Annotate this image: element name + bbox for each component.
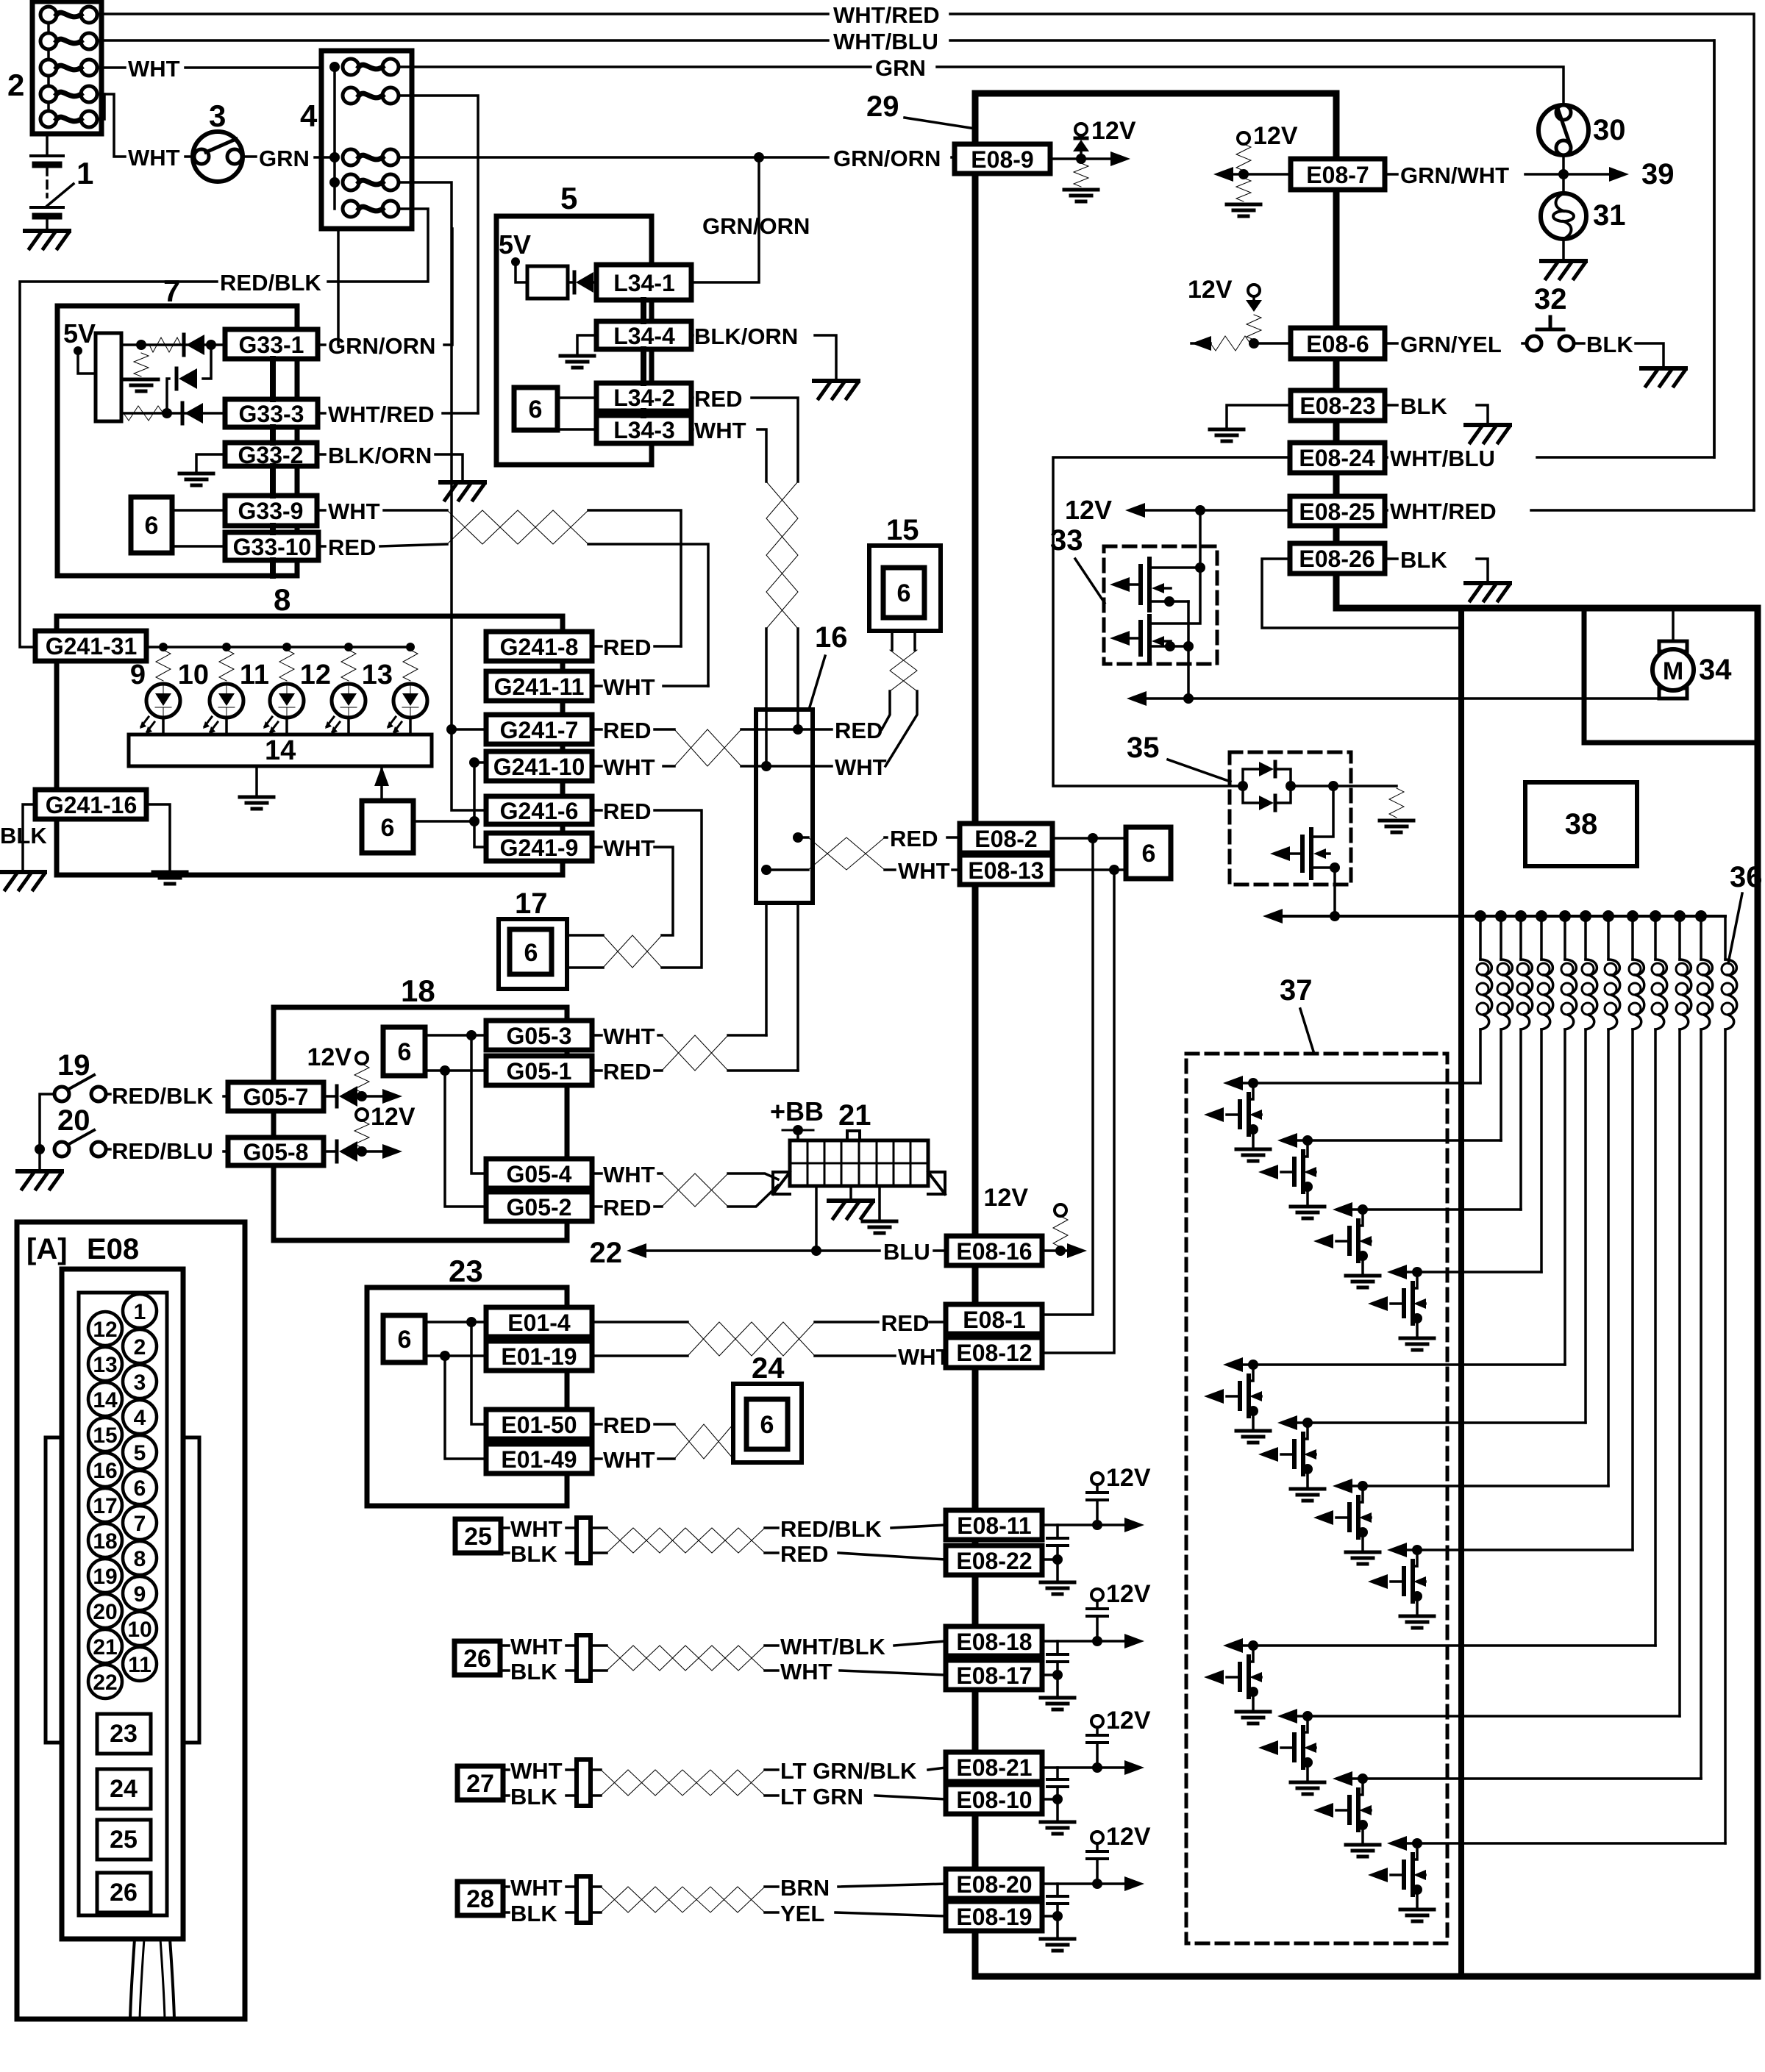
pin 20 (88, 1594, 122, 1628)
wire LED9 to bar (162, 718, 165, 735)
svg-text:WHT: WHT (510, 1758, 563, 1784)
svg-text:WHT: WHT (780, 1659, 832, 1685)
zener to 12V (1075, 137, 1087, 140)
wire RED to 15 (798, 691, 890, 729)
svg-text:M: M (1663, 657, 1683, 685)
resistor block (527, 266, 568, 299)
pin G05-7 (228, 1082, 324, 1111)
svg-text:BLK: BLK (0, 823, 47, 849)
svg-text:WHT: WHT (603, 1447, 655, 1473)
ECU 29 outline (972, 93, 979, 1976)
wire coil 8 to driver (1631, 1029, 1634, 1550)
wire GRN/ORN G33-1 up to relay4 (318, 229, 452, 345)
svg-text:WHT: WHT (510, 1516, 563, 1542)
svg-text:16: 16 (815, 621, 848, 654)
connector body (62, 1269, 183, 1939)
wire to G241-8 RED (588, 510, 681, 646)
pin 10 (123, 1612, 157, 1646)
diode 12V (1246, 300, 1262, 312)
pin G241-11 (486, 671, 592, 701)
svg-text:11: 11 (128, 1653, 151, 1677)
wire coil 10 gate line (1297, 1715, 1680, 1718)
motor M 34 (1659, 641, 1687, 651)
svg-text:19: 19 (57, 1049, 90, 1082)
svg-text:BLK: BLK (510, 1901, 557, 1926)
svg-text:12V: 12V (1065, 495, 1112, 525)
wire bar to ground (255, 766, 258, 794)
pin 3 (123, 1365, 157, 1398)
resistor up (1236, 144, 1251, 171)
transistor Q3 (37) (1313, 1202, 1380, 1287)
ground (E08-22) (1041, 1582, 1074, 1594)
svg-text:21: 21 (838, 1099, 871, 1132)
resistor (E08-9) (1074, 163, 1088, 187)
wire RED G05-2 (592, 1205, 662, 1208)
diode D (row2) (181, 403, 185, 424)
ground (E08-26) (1466, 581, 1510, 585)
pin G241-16 (35, 790, 146, 819)
svg-text:12: 12 (93, 1318, 117, 1342)
LED 11 (270, 684, 304, 718)
pin G33-10 (225, 532, 318, 560)
svg-text:1: 1 (134, 1300, 146, 1324)
pin E08-10 (946, 1785, 1042, 1814)
svg-text:G05-8: G05-8 (243, 1139, 309, 1165)
svg-text:G05-1: G05-1 (507, 1058, 572, 1085)
wire pair into 16 (766, 629, 798, 766)
svg-text:E08-21: E08-21 (956, 1754, 1032, 1781)
svg-text:GRN/WHT: GRN/WHT (1400, 162, 1509, 188)
svg-text:6: 6 (398, 1038, 412, 1066)
pin 2 (123, 1329, 157, 1363)
pin L34-4 (596, 321, 691, 349)
wire GRN/WHT (1385, 173, 1609, 176)
svg-text:8: 8 (134, 1547, 146, 1571)
svg-text:WHT/BLU: WHT/BLU (1390, 446, 1495, 471)
svg-text:38: 38 (1565, 808, 1598, 840)
wire pin column (270, 359, 276, 576)
svg-text:RED: RED (780, 1541, 828, 1567)
pin 22 (88, 1665, 122, 1698)
wire WHT/BLK (765, 1641, 946, 1646)
wire G241-16 right ground (146, 804, 170, 869)
svg-text:E08-25: E08-25 (1299, 499, 1374, 525)
svg-text:6: 6 (760, 1411, 774, 1439)
svg-text:E08-13: E08-13 (968, 857, 1044, 884)
ground (L34-4 left) (560, 356, 594, 368)
LED 10 (210, 684, 243, 718)
svg-text:5: 5 (134, 1441, 146, 1465)
wire coil 6 to driver (1584, 1029, 1587, 1423)
pin E08-17 (946, 1660, 1042, 1690)
svg-text:WHT: WHT (603, 754, 655, 780)
wire E08-18 pullup (1042, 1640, 1125, 1643)
LED bar 14 (129, 735, 432, 766)
svg-text:GRN/YEL: GRN/YEL (1400, 332, 1502, 357)
transistor Q (35) (1313, 786, 1333, 837)
svg-text:5: 5 (560, 181, 577, 215)
svg-text:G33-1: G33-1 (239, 332, 304, 358)
svg-text:WHT: WHT (898, 1344, 950, 1370)
node bus tap 2 (1495, 910, 1507, 922)
pin 14 (88, 1382, 122, 1416)
wire LED supply bus (146, 646, 410, 649)
wire RED G241-8 (592, 645, 681, 648)
svg-text:6: 6 (524, 939, 538, 967)
coil 7 (36) (1607, 916, 1610, 960)
node bus tap 8 (1627, 910, 1639, 922)
wire BLK (1385, 559, 1488, 581)
ground (21 hatched) (829, 1198, 873, 1203)
sensor module 7 (57, 306, 297, 576)
wire coil 12 to driver (1724, 1029, 1727, 1843)
wire LED13 to bar (409, 718, 412, 735)
svg-text:12V: 12V (1106, 1707, 1151, 1735)
throttle module 18 (274, 1007, 567, 1240)
wire E08-20 pullup (1042, 1882, 1125, 1885)
wire coil 3 gate line (1352, 1208, 1521, 1211)
wire 6 to G241 column (413, 820, 474, 823)
switch 30 (1538, 105, 1588, 155)
wire E08-19 to ground (1042, 1916, 1058, 1937)
twisted pair (G05-3/1) (662, 1035, 728, 1071)
wire E08-2 loop to E08-1 (1042, 838, 1093, 1315)
svg-text:G241-11: G241-11 (494, 674, 585, 700)
pin E08-16 (946, 1236, 1042, 1265)
svg-text:G241-16: G241-16 (46, 792, 138, 818)
svg-text:33: 33 (1050, 524, 1083, 557)
svg-text:WHT: WHT (603, 674, 655, 700)
svg-text:6: 6 (134, 1476, 146, 1501)
wire RED E08-2 (885, 836, 960, 839)
svg-text:BLK: BLK (1586, 332, 1633, 357)
wire harness tails (130, 1939, 135, 2019)
wire RED G241-6 (592, 810, 702, 968)
svg-text:4: 4 (300, 99, 318, 133)
wire switch30 to lamp31 (1562, 155, 1565, 193)
transistor Q11 (37) (1313, 1771, 1380, 1857)
node bus tap 5 (1559, 910, 1571, 922)
svg-text:WHT: WHT (128, 56, 180, 82)
node bus tap 6 (1580, 910, 1591, 922)
svg-text:WHT: WHT (603, 1024, 655, 1049)
svg-text:L34-2: L34-2 (613, 385, 675, 411)
pin G05-1 (486, 1056, 592, 1085)
wire 6 to E01-19 (425, 1354, 486, 1357)
diode + 12V (G05-7) (324, 1095, 337, 1098)
ground (G241-16 left) (1, 870, 45, 874)
wire RED G33-10 (318, 544, 447, 546)
wire E01-49 WHT (592, 1457, 674, 1460)
pin L34-3 (596, 415, 691, 443)
pin 1 (123, 1294, 157, 1328)
transistor Q9 (37) (1204, 1638, 1270, 1723)
wire L34-4 left ground (577, 335, 596, 353)
pin 17 (88, 1488, 122, 1522)
connector 6 (of 18) (383, 1027, 425, 1076)
shield ferrite (27) (577, 1760, 591, 1806)
svg-text:14: 14 (265, 735, 296, 766)
transistor Q upper (33) (1147, 559, 1152, 610)
svg-text:G05-4: G05-4 (507, 1161, 572, 1187)
svg-text:32: 32 (1534, 283, 1567, 315)
pin E08-19 (946, 1901, 1042, 1931)
svg-text:6: 6 (1142, 840, 1156, 868)
svg-text:RED: RED (881, 1310, 929, 1336)
wire coil 2 gate line (1297, 1139, 1501, 1142)
svg-text:17: 17 (93, 1494, 117, 1518)
svg-text:RED: RED (603, 718, 651, 743)
svg-text:G241-6: G241-6 (500, 798, 579, 824)
svg-text:21: 21 (93, 1635, 117, 1660)
wire RED G05-1 (592, 1069, 662, 1072)
ground (bar 14) (240, 797, 274, 809)
ground (E08-10) (1041, 1822, 1074, 1834)
wire coil 12 gate line (1407, 1842, 1725, 1845)
wire GRN bus (97, 67, 1563, 105)
ground (divider) (124, 379, 158, 391)
wire BLK to ground (1574, 343, 1664, 366)
wire coil 4 to driver (1540, 1029, 1543, 1272)
wire LED10 to bar (225, 718, 228, 735)
wire WHT (25) (501, 1526, 509, 1529)
resistor down (1236, 178, 1251, 201)
wire GRN switch3 to relay 4 (243, 157, 335, 157)
wire coil 4 gate line (1407, 1271, 1541, 1273)
svg-text:12V: 12V (1253, 122, 1298, 150)
wire 16 bottom to G05 pairs (766, 903, 798, 1071)
svg-text:RED: RED (694, 386, 742, 412)
twisted pair (17) (567, 935, 603, 968)
wire GRN/YEL (1385, 342, 1527, 345)
svg-text:G241-10: G241-10 (493, 754, 585, 780)
svg-text:12V: 12V (1106, 1464, 1151, 1492)
svg-text:36: 36 (1730, 861, 1763, 893)
LED 13 (393, 684, 427, 718)
wire L34 column (641, 300, 646, 415)
wire WHT/RED G33-3 (318, 412, 478, 415)
svg-text:BLK: BLK (1400, 547, 1447, 573)
sub-harness 16 (756, 710, 813, 903)
node LED branch 5 (406, 643, 415, 651)
pin 9 (123, 1576, 157, 1610)
LED 12 (332, 684, 366, 718)
wire RED G241-7 (592, 728, 674, 731)
wire BRN (765, 1884, 946, 1887)
ground (E08-23) (1466, 423, 1510, 427)
svg-text:RED/BLU: RED/BLU (112, 1138, 213, 1164)
node bus tap 10 (1674, 910, 1686, 922)
node 5V (511, 257, 520, 266)
pin 23 (97, 1714, 151, 1754)
pin 5 (123, 1435, 157, 1469)
svg-text:25: 25 (110, 1826, 138, 1854)
svg-text:2: 2 (134, 1335, 146, 1360)
diode D (mid) (167, 345, 211, 413)
wire WHT (27) (503, 1768, 509, 1771)
wire coil 5 to driver (1563, 1029, 1566, 1365)
leader 36 (1728, 893, 1742, 963)
pin 4 (123, 1400, 157, 1434)
sensor 26 (454, 1641, 500, 1675)
wire coil 9 to driver (1654, 1029, 1657, 1646)
svg-text:WHT/BLU: WHT/BLU (833, 29, 938, 54)
leader 16 (809, 656, 825, 710)
twisted pair (E01-4/19) (688, 1322, 815, 1356)
wire 6 to L34-3 (557, 428, 596, 431)
pin 18 (88, 1523, 122, 1557)
sensor 27 (457, 1766, 503, 1800)
svg-text:E08-23: E08-23 (1299, 393, 1375, 419)
coil 5 (36) (1563, 916, 1566, 960)
node LED branch 3 (282, 643, 291, 651)
wire WHT G241-11 (592, 685, 708, 687)
pin E08-24 (1290, 443, 1385, 473)
wire 6 to E01-4 (425, 1321, 486, 1323)
transistor Q7 (37) (1313, 1479, 1380, 1564)
capacitor to 12V (1096, 1726, 1099, 1768)
IC block (96, 333, 121, 421)
ground (E08-9) (1064, 190, 1098, 201)
svg-text:GRN/ORN: GRN/ORN (328, 333, 435, 359)
svg-text:+BB: +BB (770, 1096, 824, 1126)
svg-text:E08-19: E08-19 (956, 1904, 1032, 1930)
svg-text:G241-8: G241-8 (500, 634, 579, 660)
resistor (1247, 315, 1261, 340)
svg-text:E08-22: E08-22 (956, 1548, 1032, 1574)
wire arrow into bar from 6 (380, 769, 383, 801)
node 12V (1238, 132, 1249, 144)
pin G05-3 (486, 1021, 592, 1050)
leader 37 (1300, 1009, 1313, 1051)
wire coil 7 to driver (1607, 1029, 1610, 1486)
capacitor link E08-21/E08-10 (1056, 1768, 1059, 1799)
capacitor to 12V (1096, 1843, 1099, 1884)
pin E08-25 (1290, 496, 1385, 526)
wire 21 to BLU line (815, 1186, 818, 1251)
node +BB (793, 1125, 803, 1135)
wire RED L34-2 (691, 398, 798, 482)
pin G33-1 (225, 329, 318, 359)
sensor 28 (457, 1882, 503, 1915)
pin E08-13 (960, 855, 1052, 885)
svg-text:WHT: WHT (835, 754, 887, 780)
svg-text:WHT/RED: WHT/RED (328, 401, 435, 427)
svg-text:WHT: WHT (510, 1634, 563, 1660)
wire to G05-2 (445, 1071, 486, 1207)
pin G241-10 (486, 751, 592, 781)
svg-text:E01-50: E01-50 (501, 1412, 577, 1438)
node 12V (1075, 124, 1087, 135)
svg-text:6: 6 (145, 512, 159, 540)
svg-text:G05-3: G05-3 (507, 1023, 572, 1049)
node bus tap 11 (1695, 910, 1707, 922)
svg-text:BLU: BLU (883, 1239, 930, 1265)
pin G33-9 (225, 496, 317, 526)
pin E08-2 (960, 824, 1052, 853)
svg-text:5V: 5V (63, 318, 96, 349)
svg-text:G33-10: G33-10 (233, 534, 312, 560)
diode D (row1) (182, 335, 186, 355)
wire E08-11 pullup (1042, 1523, 1125, 1526)
module 38 (1525, 782, 1637, 866)
pin E01-50 (486, 1410, 592, 1439)
svg-text:GRN: GRN (259, 146, 310, 171)
wire LED11 to bar (285, 718, 288, 735)
node bus tap 9 (1650, 910, 1661, 922)
svg-text:E08-11: E08-11 (957, 1512, 1031, 1539)
wire RED/BLK (106, 1094, 228, 1096)
wire E08-9 pullup (1050, 157, 1110, 160)
wire coil 10 to driver (1678, 1029, 1681, 1716)
svg-text:G05-2: G05-2 (507, 1194, 572, 1221)
resistor (LED 2) (219, 650, 234, 681)
svg-text:3: 3 (209, 99, 226, 133)
pin E08-20 (946, 1869, 1042, 1898)
svg-text:12V: 12V (1188, 276, 1233, 304)
wire GRN/ORN relay4 to E08-9 (399, 156, 956, 159)
svg-text:12V: 12V (1106, 1823, 1151, 1851)
coil 9 (36) (1654, 916, 1657, 960)
wire relay4 row4 down to LED panel G241-7 (399, 182, 452, 729)
connector [A] E08 outline (17, 1222, 245, 2019)
coil 2 (36) (1500, 916, 1502, 960)
wire WHT/RED (1385, 509, 1754, 512)
svg-text:WHT: WHT (603, 1162, 655, 1187)
pin 13 (88, 1347, 122, 1381)
wire 6 to G05-1 (425, 1069, 486, 1072)
wire to G241-11 WHT (588, 544, 708, 686)
svg-text:WHT: WHT (603, 835, 655, 861)
wire coil 3 to driver (1519, 1029, 1522, 1210)
svg-text:[A]: [A] (26, 1233, 68, 1265)
wire internal column B (474, 762, 486, 847)
LED panel 8 (57, 616, 563, 875)
pin 21 (88, 1629, 122, 1663)
svg-text:12V: 12V (1106, 1580, 1151, 1608)
wire WHT G241-9 (592, 847, 673, 935)
svg-text:RED: RED (890, 826, 938, 851)
wire WHT (26) (500, 1644, 509, 1647)
pin G05-4 (486, 1159, 592, 1188)
svg-text:12V: 12V (371, 1103, 416, 1131)
transistor Q lower (33) (1147, 616, 1152, 660)
svg-text:16: 16 (93, 1459, 117, 1483)
wire WHT G33-9 (317, 509, 447, 512)
wire WHT E08-13 (885, 868, 960, 871)
resistor (LED 1) (156, 650, 171, 681)
pin 12 (88, 1312, 122, 1346)
ground (E08-23 left) (1210, 429, 1244, 441)
svg-text:20: 20 (57, 1104, 90, 1137)
svg-text:WHT: WHT (898, 858, 950, 884)
capacitor to 12V (1096, 1484, 1099, 1525)
pin L34-1 (596, 265, 691, 300)
wire E08-6 pullup (1259, 342, 1291, 345)
pin E08-12 (946, 1337, 1042, 1368)
svg-text:25: 25 (464, 1523, 492, 1551)
svg-text:15: 15 (886, 514, 919, 546)
pin 24 (97, 1769, 151, 1809)
svg-text:20: 20 (93, 1600, 117, 1624)
transistor Q6 (37) (1258, 1415, 1324, 1501)
pin E08-26 (1290, 543, 1385, 574)
ground (G241-16 right) (153, 872, 187, 884)
pin 26 (97, 1873, 151, 1912)
twisted pair (27) (601, 1770, 765, 1796)
svg-text:RED: RED (603, 635, 651, 660)
pin 8 (123, 1541, 157, 1575)
